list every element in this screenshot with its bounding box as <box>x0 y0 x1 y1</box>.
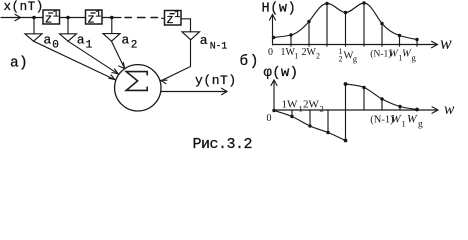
phi sample dots <box>272 82 419 142</box>
multiplier a0 triangle <box>25 34 42 41</box>
wire output <box>161 91 226 93</box>
wire aN-1 down <box>190 40 192 67</box>
svg-text:2: 2 <box>320 104 324 114</box>
svg-text:w: w <box>440 33 452 53</box>
wire box1 to box2 <box>60 17 86 19</box>
svg-text:a: a <box>44 33 52 48</box>
H stem at 1w1 <box>290 35 292 46</box>
arrowhead a1 <box>112 69 118 74</box>
svg-text:1W: 1W <box>281 47 296 58</box>
H stem 7 <box>399 36 401 47</box>
H horizontal axis arrowhead <box>432 41 438 47</box>
svg-text:2W: 2W <box>302 47 317 58</box>
H vertical axis <box>272 16 274 46</box>
phi stem neg 3 <box>327 110 329 133</box>
svg-text:1: 1 <box>86 40 93 52</box>
svg-text:1: 1 <box>53 10 59 21</box>
multiplier a1 triangle <box>60 34 77 41</box>
svg-text:x(nT): x(nT) <box>4 0 44 14</box>
wire down to a0 <box>33 18 35 34</box>
H(w) sampled curve <box>274 3 418 40</box>
phi stem neg 1 <box>291 110 293 117</box>
arrowhead aN-1 <box>161 80 167 84</box>
svg-text:Рис.3.2: Рис.3.2 <box>193 136 253 153</box>
phi horizontal axis arrowhead <box>432 107 438 113</box>
wire a1 to summer <box>68 41 118 74</box>
wire aN-1 diagonal to summer <box>161 67 191 81</box>
H stem peak1 <box>326 4 328 47</box>
delay z3 box <box>165 11 182 26</box>
svg-text:a): a) <box>10 56 28 72</box>
label a1 <box>77 33 93 52</box>
label aN-1 <box>200 33 227 52</box>
svg-text:2: 2 <box>131 40 138 52</box>
phi positive branch curve <box>346 84 418 110</box>
svg-text:2: 2 <box>316 52 320 61</box>
arrowhead a2 <box>119 62 125 68</box>
svg-text:w: w <box>444 101 455 118</box>
wire dashed segment 3 <box>151 17 158 19</box>
summer circle <box>115 65 161 111</box>
H horizontal axis <box>273 44 437 46</box>
svg-text:z: z <box>87 13 95 27</box>
H axis labels <box>268 47 417 64</box>
label a2 <box>122 33 138 52</box>
svg-text:y(nT): y(nT) <box>195 73 237 88</box>
svg-text:2W: 2W <box>303 99 320 111</box>
svg-text:g: g <box>418 120 423 130</box>
svg-text:0: 0 <box>268 47 273 58</box>
wire box2 out <box>102 17 121 19</box>
delay z2 box <box>86 10 103 24</box>
multiplier aN-1 triangle <box>182 32 200 40</box>
wire a0 to summer <box>34 41 115 79</box>
delay z1 box <box>43 10 60 24</box>
svg-text:z: z <box>166 13 174 27</box>
svg-text:W: W <box>389 49 399 60</box>
H sample dots <box>272 1 419 41</box>
svg-text:g: g <box>412 53 417 63</box>
svg-text:1: 1 <box>402 119 406 129</box>
wire down to a1 <box>67 18 69 34</box>
svg-text:W: W <box>407 114 418 126</box>
svg-text:H(w): H(w) <box>262 2 297 17</box>
phi vertical axis arrowhead <box>271 80 277 86</box>
H stem mid <box>345 13 347 47</box>
node junction 2 <box>66 16 70 20</box>
phi negative branch curve <box>274 111 346 141</box>
svg-text:1: 1 <box>295 52 299 61</box>
svg-text:1: 1 <box>174 10 180 21</box>
wire dashed segment 2 <box>138 17 146 19</box>
phi stem pos 3 <box>399 107 401 111</box>
svg-text:0: 0 <box>267 113 272 124</box>
phi stem pos 1 <box>363 88 365 111</box>
svg-text:W: W <box>402 49 412 60</box>
summer sigma <box>126 72 147 91</box>
H stem peak2 <box>363 3 365 46</box>
node junction 1 <box>32 16 36 20</box>
svg-text:z: z <box>45 13 53 27</box>
svg-text:a: a <box>77 33 85 48</box>
svg-text:W: W <box>391 114 402 126</box>
phi axis labels <box>267 99 424 130</box>
wire box3 out right <box>181 19 191 32</box>
svg-text:g: g <box>353 54 358 64</box>
svg-text:1: 1 <box>95 10 101 21</box>
label a0 <box>44 33 59 52</box>
svg-text:φ(w): φ(w) <box>264 65 299 81</box>
phi stem pos 2 <box>381 99 383 110</box>
phi vertical axis <box>273 81 275 110</box>
svg-text:a: a <box>122 33 130 48</box>
svg-text:0: 0 <box>52 40 59 52</box>
wire stub into z3 <box>162 17 165 19</box>
output arrowhead <box>222 88 228 94</box>
multiplier a2 triangle <box>103 34 120 42</box>
H stem 6 <box>381 24 383 47</box>
svg-text:2: 2 <box>339 55 343 64</box>
svg-text:a: a <box>200 33 208 48</box>
wire dashed segment 1 <box>125 17 132 19</box>
input arrowhead <box>15 14 21 20</box>
arrowhead a0 <box>109 75 115 80</box>
wire a2 to summer <box>112 41 125 68</box>
H stem at 2w2 <box>308 22 310 47</box>
phi stem neg 2 <box>309 110 311 126</box>
phi horizontal axis <box>274 109 437 111</box>
svg-text:1W: 1W <box>282 99 299 111</box>
H stem last <box>416 40 418 47</box>
wire down to a2 <box>111 18 113 34</box>
H vertical axis arrowhead <box>270 15 276 21</box>
svg-text:N-1: N-1 <box>210 41 227 52</box>
phi jump line <box>345 84 347 141</box>
node junction 3 <box>110 16 114 20</box>
svg-text:б): б) <box>240 53 260 70</box>
wire input line <box>1 17 43 19</box>
